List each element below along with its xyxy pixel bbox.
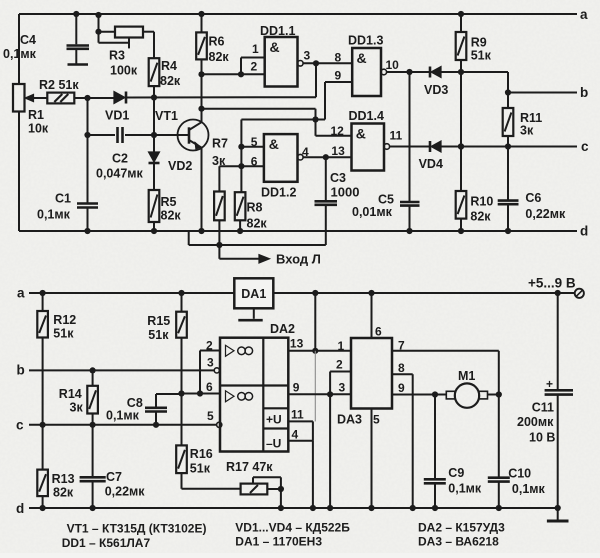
svg-text:10 В: 10 В [529,431,555,445]
svg-text:8: 8 [398,361,405,375]
svg-text:82к: 82к [53,486,74,500]
svg-text:DA2: DA2 [270,322,295,336]
svg-text:C1: C1 [55,192,71,206]
svg-text:+5...9 В: +5...9 В [528,276,576,291]
svg-text:VT1: VT1 [155,109,178,123]
svg-text:R14: R14 [59,387,82,401]
svg-text:DD1.4: DD1.4 [349,109,384,123]
svg-text:DA3 – ВА6218: DA3 – ВА6218 [418,535,499,549]
svg-text:b: b [580,85,588,100]
svg-text:51к: 51к [53,327,74,341]
svg-text:DA1: DA1 [241,287,266,301]
svg-text:DD1.1: DD1.1 [260,24,295,38]
svg-text:51к: 51к [190,462,211,476]
svg-text:0,1мк: 0,1мк [512,482,546,496]
svg-text:C3: C3 [330,171,346,185]
svg-text:1: 1 [338,339,345,353]
svg-text:6: 6 [251,155,258,169]
svg-text:0,1мк: 0,1мк [106,409,140,423]
svg-text:8: 8 [335,51,342,65]
svg-text:5: 5 [207,409,214,423]
svg-text:c: c [16,418,24,433]
svg-text:M1: M1 [458,369,475,383]
svg-text:9: 9 [293,381,300,395]
svg-text:&: & [356,126,366,142]
svg-text:6: 6 [375,325,382,339]
svg-text:82к: 82к [161,209,182,223]
svg-text:1000: 1000 [331,185,360,200]
svg-text:0,1мк: 0,1мк [37,208,71,222]
svg-text:13: 13 [290,337,304,351]
svg-text:0,1мк: 0,1мк [3,47,37,61]
svg-text:VD3: VD3 [424,83,448,97]
svg-text:C10: C10 [508,467,531,481]
svg-text:R6: R6 [209,35,225,49]
svg-text:0,047мк: 0,047мк [96,167,144,181]
svg-text:0,22мк: 0,22мк [525,207,566,221]
svg-text:R10: R10 [470,195,493,209]
svg-text:0,01мк: 0,01мк [352,205,393,219]
svg-text:C2: C2 [112,152,128,166]
svg-text:VD2: VD2 [168,159,192,173]
svg-text:12: 12 [331,124,345,138]
svg-text:5: 5 [251,135,258,149]
svg-text:VT1 – КТ315Д (КТ3102Е): VT1 – КТ315Д (КТ3102Е) [67,522,207,536]
svg-text:DA1 – 1170ЕН3: DA1 – 1170ЕН3 [235,535,322,549]
svg-text:R8: R8 [247,201,263,215]
svg-text:DD1 – К561ЛА7: DD1 – К561ЛА7 [62,536,151,550]
svg-text:3к: 3к [212,154,226,168]
svg-text:+U: +U [266,413,282,427]
svg-text:11: 11 [291,408,304,422]
svg-text:C11: C11 [532,401,554,415]
svg-text:Вход Л: Вход Л [276,252,321,267]
svg-text:R5: R5 [161,195,177,209]
svg-text:C4: C4 [20,33,36,47]
svg-text:82к: 82к [470,210,491,224]
svg-text:DA3: DA3 [337,413,362,427]
svg-text:R2 51к: R2 51к [39,78,79,92]
svg-text:2: 2 [206,339,213,353]
svg-text:0,22мк: 0,22мк [105,485,146,499]
svg-text:9: 9 [398,381,405,395]
svg-text:b: b [17,363,25,378]
svg-text:DD1.2: DD1.2 [261,186,296,200]
svg-text:2: 2 [336,358,343,372]
svg-text:51к: 51к [148,328,169,342]
svg-text:4: 4 [302,145,309,159]
svg-text:R16: R16 [190,447,213,461]
svg-text:R12: R12 [53,313,76,327]
svg-text:10: 10 [386,58,400,72]
svg-text:5: 5 [373,413,380,427]
svg-text:13: 13 [331,144,345,158]
svg-text:82к: 82к [247,217,268,231]
svg-text:C9: C9 [448,466,464,480]
svg-text:R15: R15 [147,314,170,328]
svg-text:&: & [357,50,367,66]
svg-text:R3: R3 [109,49,125,63]
svg-text:a: a [580,7,588,22]
svg-text:82к: 82к [160,74,181,88]
svg-text:10к: 10к [28,122,49,136]
svg-text:d: d [580,224,588,239]
svg-text:3: 3 [339,381,346,395]
svg-text:82к: 82к [209,50,230,64]
svg-text:200мк: 200мк [517,415,554,429]
svg-text:0,1мк: 0,1мк [448,482,482,496]
svg-text:3: 3 [304,49,311,63]
svg-text:3к: 3к [70,401,84,415]
svg-text:–U: –U [266,437,281,451]
svg-text:51к: 51к [471,49,492,63]
svg-text:4: 4 [292,428,299,442]
svg-text:DA2 – К157УД3: DA2 – К157УД3 [418,521,505,535]
svg-text:3: 3 [207,356,214,370]
svg-text:DD1.3: DD1.3 [348,34,383,48]
svg-text:+: + [546,377,553,391]
svg-text:R9: R9 [471,36,487,50]
svg-text:&: & [270,39,280,55]
svg-text:VD1: VD1 [105,109,129,123]
svg-text:c: c [581,139,589,154]
svg-text:VD4: VD4 [419,157,443,171]
svg-text:a: a [17,286,25,301]
svg-text:R13: R13 [52,472,75,486]
svg-text:C7: C7 [106,470,122,484]
svg-text:1: 1 [252,42,259,56]
svg-text:R4: R4 [161,59,177,73]
svg-text:3к: 3к [520,124,534,138]
svg-text:&: & [269,136,279,152]
svg-text:C6: C6 [525,191,541,205]
svg-text:6: 6 [206,380,213,394]
svg-text:2: 2 [251,60,258,74]
svg-text:100к: 100к [110,64,138,78]
svg-text:R7: R7 [212,137,228,151]
svg-text:R1: R1 [28,108,44,122]
svg-text:VD1...VD4 – КД522Б: VD1...VD4 – КД522Б [235,521,350,535]
svg-text:R17 47к: R17 47к [226,460,273,474]
svg-text:11: 11 [390,129,403,143]
svg-text:9: 9 [335,69,342,83]
svg-text:d: d [16,501,24,516]
